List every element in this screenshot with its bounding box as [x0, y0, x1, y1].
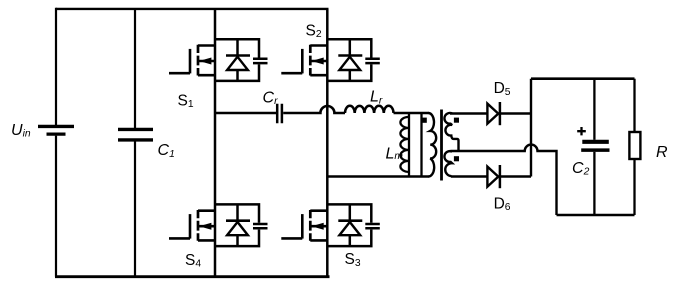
wire leg B (S2/S3 bridge leg)	[326, 9, 329, 277]
svg-text:S1: S1	[178, 92, 194, 110]
transformer secondary bottom winding	[444, 151, 452, 176]
switch S4 (MOSFET + antiparallel diode + snubber cap)	[169, 204, 268, 246]
svg-text:S2: S2	[306, 22, 322, 40]
wire bottom rail	[55, 275, 330, 278]
capacitor C2 bottom plate	[581, 148, 609, 152]
wire secondary bottom to D6	[451, 175, 488, 178]
wire output bottom rail	[557, 214, 635, 217]
wire C2 branch upper	[593, 79, 595, 140]
diode D5 triangle	[487, 104, 498, 124]
wire top rail	[56, 8, 329, 10]
capacitor Cr plates	[277, 104, 282, 124]
voltage source Uin short plate	[47, 133, 66, 136]
inductor Lm vertical lead	[408, 113, 410, 177]
switch S1 (MOSFET + antiparallel diode + snubber cap)	[169, 39, 268, 81]
inductor Lm humps	[400, 117, 409, 172]
wire centre tap with hop over output node	[451, 145, 557, 215]
capacitor C2 top plate	[582, 140, 609, 144]
svg-text:S3: S3	[345, 251, 361, 269]
svg-text:Uin: Uin	[11, 122, 31, 140]
wire C1 branch upper	[134, 9, 136, 128]
inductor Lr humps	[345, 106, 394, 113]
svg-text:C2: C2	[572, 160, 590, 178]
wire Cr to hop over leg B	[283, 106, 345, 113]
wire rectifier output node vertical	[530, 79, 532, 177]
wire transformer primary bottom to leg B midpoint	[327, 175, 429, 178]
wire C1 branch lower	[134, 141, 136, 277]
transformer secondary top polarity dot	[454, 118, 459, 123]
transformer primary return line	[420, 114, 422, 176]
svg-text:C1: C1	[158, 142, 175, 160]
capacitor C2 polarity plus	[577, 127, 586, 135]
diode D6 cathode bar	[499, 165, 502, 188]
voltage source Uin long plate	[38, 125, 74, 128]
svg-text:Lr: Lr	[370, 89, 383, 107]
wire Lr to transformer primary top	[394, 112, 430, 115]
resistor R body	[629, 132, 640, 159]
svg-text:R: R	[656, 144, 668, 161]
transformer secondary bottom polarity dot	[454, 156, 459, 161]
switch S3 (MOSFET + antiparallel diode + snubber cap)	[281, 204, 380, 246]
wire secondary top to D5	[450, 112, 488, 115]
transformer primary winding humps	[429, 113, 437, 177]
transformer secondary top winding	[444, 113, 458, 151]
wire R branch lower	[633, 159, 635, 215]
diode D5 cathode bar	[499, 102, 502, 125]
wire leg A midpoint to Cr	[215, 112, 276, 115]
svg-text:D6: D6	[494, 195, 511, 213]
wire output top rail	[531, 77, 635, 80]
wire left rail upper	[55, 8, 57, 125]
wire C2 branch lower	[593, 152, 595, 215]
svg-text:S4: S4	[185, 252, 201, 270]
transformer primary polarity dot	[422, 118, 427, 123]
capacitor C1 plates	[118, 129, 153, 140]
wire R branch upper	[633, 79, 635, 132]
svg-text:Cr: Cr	[263, 89, 279, 107]
diode D6 triangle	[487, 167, 498, 187]
switch S2 (MOSFET + antiparallel diode + snubber cap)	[281, 39, 380, 81]
wire left rail lower	[55, 136, 57, 277]
svg-text:D5: D5	[494, 80, 511, 98]
wire D6 to output node	[500, 175, 531, 178]
wire leg A (S1/S4 bridge leg)	[214, 9, 217, 277]
transformer core	[440, 110, 443, 181]
wire D5 to output node	[500, 112, 531, 115]
